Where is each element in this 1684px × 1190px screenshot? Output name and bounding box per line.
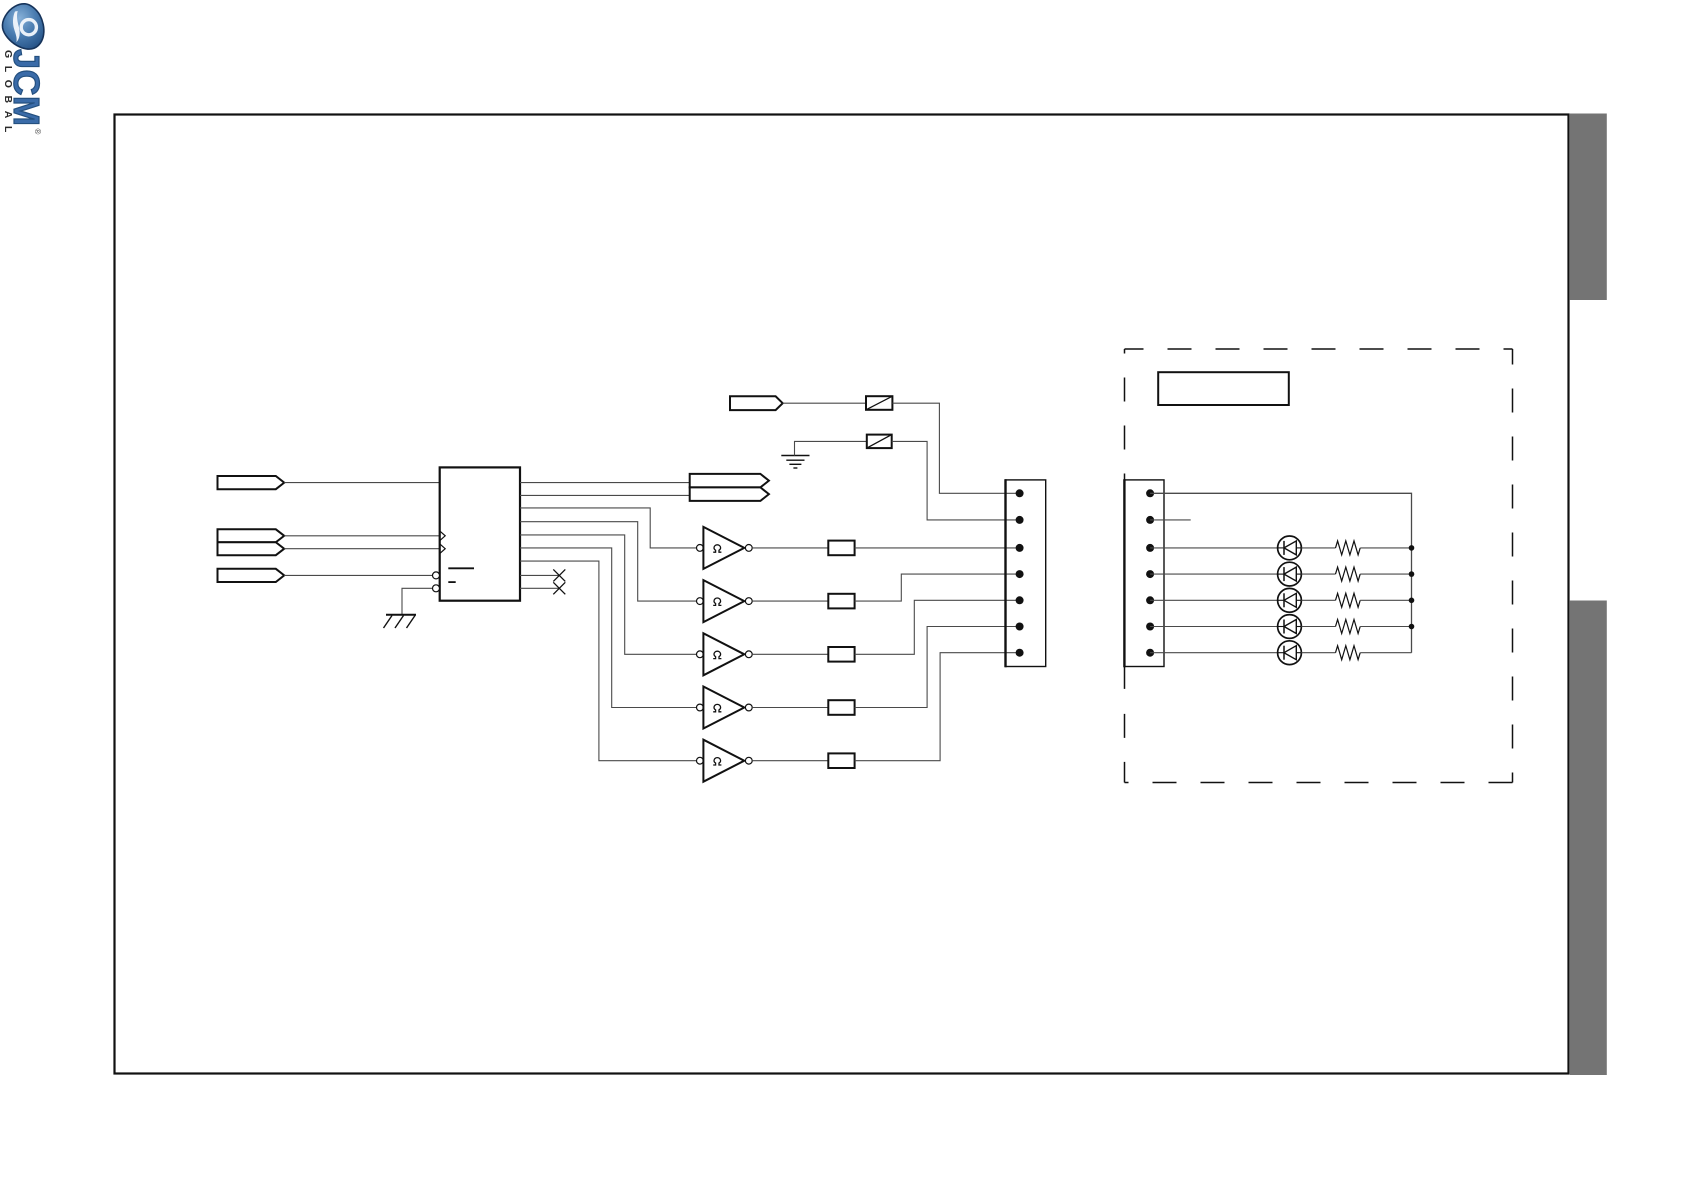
wire U1 to inverter U6 (520, 561, 696, 761)
wire U4 to resistor R3 (752, 653, 828, 655)
wire D3 to resistor RL3 (1301, 599, 1335, 601)
connector J3 pin 2 (1146, 516, 1154, 524)
wire U2 to resistor R1 (752, 547, 828, 549)
LED D5 (1278, 641, 1302, 665)
wire D4 to resistor RL4 (1301, 626, 1335, 628)
wire R1 to connector J2 pin 3 (855, 547, 1020, 549)
wire D5 to resistor RL5 (1301, 652, 1335, 654)
wire D2 to resistor RL2 (1301, 573, 1335, 575)
wire RL3 to common bus (1360, 599, 1411, 601)
input connector arrow A5 (top) (730, 396, 783, 410)
LED D3 (1278, 588, 1302, 612)
wire J3 pin 6 to LED D4 (1150, 626, 1278, 628)
wire U3 to resistor R2 (752, 600, 828, 602)
wire RL4 to common bus (1360, 626, 1411, 628)
fuse F2 (867, 435, 892, 449)
U1 internal overline mark short (448, 581, 455, 583)
connector J3 pin 4 (1146, 570, 1154, 578)
no-connect X mark 2 (553, 582, 565, 594)
U1 clock pin mark (A3) (440, 544, 445, 553)
input connector arrow A1 (218, 476, 285, 489)
wire J3 pin 7 to LED D5 (1150, 652, 1278, 654)
inverter U4 output bubble (745, 651, 752, 658)
inverter U3 omega label (713, 598, 721, 605)
resistor R3 (828, 647, 854, 662)
input connector arrow A3 (218, 542, 285, 555)
wire J3 pin 3 to LED D1 (1150, 547, 1278, 549)
wire RL5 to common bus (1360, 652, 1411, 654)
JCM Global logo icon (0, 1, 50, 53)
resistor R5 (828, 753, 854, 768)
wire F1 to connector J2 pin 1 (892, 403, 1019, 493)
junction node bus row 4 (1409, 624, 1415, 630)
resistor RL1 (zigzag) (1336, 541, 1361, 555)
resistor R1 (828, 541, 854, 556)
inverter U4 input bubble (697, 651, 704, 658)
wire RL2 to common bus (1360, 573, 1411, 575)
wire U1 to output arrow B2 (520, 494, 690, 496)
junction node bus row 2 (1409, 571, 1415, 577)
inverter U2 output bubble (745, 545, 752, 552)
wire R2 to connector J2 pin 4 (855, 574, 1020, 601)
right margin tab lower (1570, 601, 1607, 1076)
U1 inverting bubble pin (ground) (433, 585, 440, 592)
output connector arrow B2 (690, 487, 769, 501)
wire U1 to output arrow B1 (520, 482, 690, 484)
wire A4 to U1 inverted pin (284, 574, 432, 576)
resistor R2 (828, 594, 854, 609)
connector J2 pin 6 (1016, 623, 1024, 631)
wire RL1 to common bus (1360, 547, 1411, 549)
connector J3 pin 7 (1146, 649, 1154, 657)
wire J3 pin 4 to LED D2 (1150, 573, 1278, 575)
inverter U5 (703, 687, 744, 729)
inverter U2 (703, 527, 744, 569)
inverter U4 (703, 633, 744, 675)
wire U1 inverted pin to chassis ground (402, 588, 432, 615)
enclosure label box (1158, 372, 1289, 405)
inverter U3 output bubble (745, 598, 752, 605)
dashed enclosure box (1125, 349, 1513, 783)
connector J3 pin 3 (1146, 544, 1154, 552)
inverter U3 input bubble (697, 598, 704, 605)
connector J2 pin 7 (1016, 649, 1024, 657)
resistor RL4 (zigzag) (1336, 620, 1361, 634)
drawing frame border (115, 115, 1569, 1074)
wire R4 to connector J2 pin 6 (855, 627, 1020, 708)
inverter U5 output bubble (745, 704, 752, 711)
resistor RL5 (zigzag) (1336, 646, 1361, 660)
inverter U6 output bubble (745, 757, 752, 764)
inverter U6 omega label (713, 758, 721, 765)
JCM Global logo text (rotated) (0, 49, 42, 133)
connector J3 pin 6 (1146, 623, 1154, 631)
wire A5 to fuse F1 (783, 402, 866, 404)
wire earth ground to fuse F2 (795, 441, 867, 455)
resistor RL2 (zigzag) (1336, 567, 1361, 581)
connector J3 pin 1 (1146, 489, 1154, 497)
inverter U3 (703, 580, 744, 622)
inverter U6 (703, 740, 744, 782)
output connector arrow B1 (690, 474, 769, 488)
resistor R4 (828, 700, 854, 715)
LED D4 (1278, 615, 1302, 639)
earth ground (781, 456, 809, 469)
wire U1 no-connect 2 (520, 587, 559, 589)
connector J2 pin 4 (1016, 570, 1024, 578)
connector J2 pin 3 (1016, 544, 1024, 552)
IC U1 (440, 467, 520, 600)
junction node bus row 3 (1409, 598, 1415, 604)
inverter U2 omega label (713, 545, 721, 552)
wire J3 pin 2 stub (1150, 519, 1191, 521)
U1 inverting bubble pin (A4) (433, 572, 440, 579)
wire U5 to resistor R4 (752, 707, 828, 709)
wire A2 to U1 clock pin (284, 535, 440, 537)
wire A3 to U1 clock pin (284, 548, 440, 550)
connector J3 pin 5 (1146, 596, 1154, 604)
connector J2 pin 1 (1016, 489, 1024, 497)
wire J3 pin 5 to LED D3 (1150, 599, 1278, 601)
wire F2 to connector J2 pin 2 (892, 441, 1020, 520)
wire U1 to inverter U4 (520, 535, 696, 654)
wire D1 to resistor RL1 (1301, 547, 1335, 549)
wire R3 to connector J2 pin 5 (855, 600, 1020, 654)
LED D1 (1278, 536, 1302, 560)
wire J3 pin 1 to common bus (1150, 493, 1411, 652)
connector J2 pin 5 (1016, 596, 1024, 604)
chassis ground (384, 615, 417, 628)
connector J3 (1124, 480, 1164, 667)
connector J2 pin 2 (1016, 516, 1024, 524)
inverter U4 omega label (713, 651, 721, 658)
wire U1 to inverter U2 (520, 508, 696, 548)
inverter U5 input bubble (697, 704, 704, 711)
junction node bus row 1 (1409, 545, 1415, 551)
inverter U2 input bubble (697, 545, 704, 552)
wire U1 no-connect 1 (520, 574, 559, 576)
fuse F1 (866, 396, 892, 410)
wire A1 to U1 pin (284, 482, 439, 484)
wire R5 to connector J2 pin 7 (855, 653, 1020, 761)
inverter U5 omega label (713, 704, 721, 711)
U1 clock pin mark (A2) (440, 531, 445, 540)
LED D2 (1278, 562, 1302, 586)
U1 internal overline mark long (448, 567, 474, 569)
input connector arrow A2 (218, 529, 285, 542)
inverter U6 input bubble (697, 757, 704, 764)
wire U6 to resistor R5 (752, 760, 828, 762)
input connector arrow A4 (218, 569, 285, 582)
right margin tab upper (1570, 114, 1607, 301)
resistor RL3 (zigzag) (1336, 593, 1361, 607)
connector J2 (1006, 480, 1046, 667)
wire U1 to inverter U5 (520, 548, 696, 708)
wire U1 to inverter U3 (520, 522, 696, 601)
no-connect X mark 1 (553, 569, 565, 581)
